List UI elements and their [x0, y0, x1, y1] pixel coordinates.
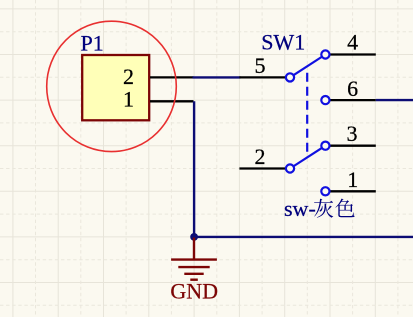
designator SW1 [261, 30, 305, 55]
svg-text:1: 1 [123, 87, 134, 112]
net label GND [170, 279, 218, 304]
SW1 pin 2 contact circle [286, 164, 294, 172]
designator P1 [81, 30, 104, 55]
SW1 pin 1 stub [330, 190, 376, 192]
SW1 pin 6 number [347, 76, 358, 101]
SW1 upper lever 5-4 [290, 55, 325, 78]
svg-text:3: 3 [347, 121, 358, 146]
wire SW1.6 right [376, 99, 413, 101]
SW1 pin 6 stub [330, 99, 376, 101]
svg-text:2: 2 [123, 64, 134, 89]
P1 pin 2 number [123, 64, 134, 89]
svg-text:4: 4 [347, 30, 358, 55]
wire P1.1 down [193, 101, 195, 237]
SW1 pin 4 number [347, 30, 358, 55]
SW1 pin 1 number [347, 167, 358, 192]
P1 pin 2 stub [150, 76, 194, 78]
SW1 pole link dashed [306, 68, 308, 157]
svg-text:2: 2 [255, 144, 266, 169]
SW1 pin 3 number [347, 121, 358, 146]
svg-text:P1: P1 [81, 30, 104, 55]
wire bottom horizontal [194, 236, 413, 238]
SW1 pin 3 stub [330, 145, 376, 147]
P1 pin 1 number [123, 87, 134, 112]
svg-text:6: 6 [347, 76, 358, 101]
SW1 lower lever 2-3 [290, 146, 325, 169]
svg-text:5: 5 [255, 53, 266, 78]
SW1 pin 3 contact circle [321, 142, 329, 150]
junction dot [190, 233, 198, 241]
SW1 pin 4 stub [330, 53, 376, 55]
svg-text:1: 1 [347, 167, 358, 192]
connector P1 body [82, 55, 149, 120]
highlight ellipse [47, 21, 177, 151]
SW1 pin 6 contact circle [321, 96, 329, 104]
comment text sw-灰色 [284, 196, 355, 221]
SW1 pin 2 stub [239, 167, 290, 169]
P1 pin 1 stub [150, 100, 194, 102]
SW1 pin 4 contact circle [321, 50, 329, 58]
ground symbol [171, 238, 217, 280]
svg-text:sw-: sw- [284, 196, 316, 221]
svg-text:SW1: SW1 [261, 30, 305, 55]
SW1 pin 2 number [255, 144, 266, 169]
SW1 pin 5 number [255, 53, 266, 78]
wire P1.2 to SW1.5 [193, 76, 241, 78]
SW1 pin 5 stub [239, 76, 290, 78]
svg-text:GND: GND [170, 279, 218, 304]
SW1 pin 1 contact circle [321, 187, 329, 195]
SW1 pin 5 contact circle [286, 73, 294, 81]
